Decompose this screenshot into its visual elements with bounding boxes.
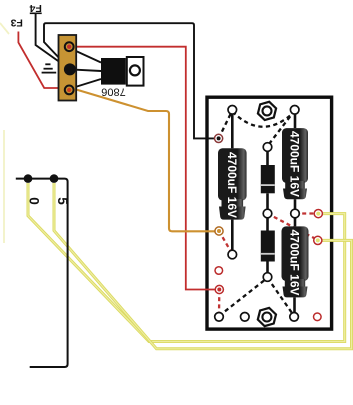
black dashed trace pad17-pad15 (268, 278, 295, 316)
terminal middle (64, 63, 76, 75)
black dashed trace pad13-pad17 (219, 278, 268, 316)
F4 label underline (30, 12, 42, 14)
terminal strip (59, 35, 77, 101)
svg-text:F3: F3 (11, 17, 23, 29)
red dashed trace pad7 to pad10 (under bottom cap) (268, 214, 318, 241)
terminal top (65, 42, 74, 51)
terminal bottom (65, 86, 74, 95)
capacitor C1 4700uF 16V (left) (218, 148, 247, 219)
pad 15 (290, 313, 299, 322)
pad 7 (263, 209, 272, 218)
diode D1 (261, 165, 275, 193)
wire black F4 to middle terminal (36, 13, 70, 69)
PCB board (207, 97, 332, 329)
svg-text:4700uF 16V: 4700uF 16V (287, 229, 301, 295)
lead top-right cap bottom (294, 199, 297, 213)
capacitor C2 4700uF 16V (top right) (282, 128, 308, 199)
pad 2 (290, 106, 299, 115)
wire black middle terminal to board pad 4 (44, 23, 219, 138)
pad 3 (263, 143, 272, 152)
pad 12 (red in) (215, 285, 223, 293)
mid column leads (266, 147, 269, 165)
pad 8 (291, 209, 300, 218)
red dashed trace pad12-pad13 (218, 290, 221, 316)
red dashed trace pad8-pad9 (295, 212, 318, 214)
lead left cap bottom (231, 220, 234, 255)
pad 16 (red ring) (314, 313, 322, 321)
pad 11 (red ring) (215, 267, 223, 275)
wires terminal strip to 7806 pins (71, 49, 102, 63)
red dashed trace pad5-pad6 (219, 231, 232, 254)
wire yellow 5 (transformer 5 to board pad) (54, 183, 352, 349)
svg-text:0: 0 (27, 197, 42, 205)
pad 4 (input from 7806) (215, 134, 223, 142)
ground symbol (42, 64, 57, 72)
regulator U1 7806 body (101, 58, 126, 85)
pad 10 (yellow out) (314, 236, 322, 244)
pad 1 (228, 106, 237, 115)
transformer terminal 5 (50, 174, 59, 183)
svg-text:4700uF 16V: 4700uF 16V (288, 131, 302, 197)
pad 17 (263, 273, 272, 282)
regulator hole (130, 65, 140, 75)
lead top-right cap top (294, 110, 297, 128)
lead bottom-right cap top (294, 214, 297, 227)
lead bottom-right cap bottom (293, 297, 296, 316)
svg-text:5: 5 (55, 197, 70, 205)
pad 5 (orange) (215, 227, 223, 235)
faint artifact line left edge (3, 130, 5, 243)
svg-text:7806: 7806 (101, 85, 125, 97)
wire orange terminal strip bottom to board pad 5 (70, 88, 220, 232)
hex nut top (257, 100, 277, 122)
diode D2 (261, 231, 275, 262)
faint artifact corner top-left (0, 23, 9, 34)
hex nut bottom (257, 306, 277, 328)
transformer terminal 0 (24, 174, 33, 183)
black dashed trace pad4-pad1 (219, 111, 233, 139)
pad 13 (215, 313, 224, 322)
pad 9 (yellow out) (314, 210, 322, 218)
lead left cap top (231, 110, 234, 149)
svg-text:F4: F4 (29, 2, 41, 14)
wire red F3 to terminal strip bottom (18, 32, 69, 90)
svg-text:4700uF 16V: 4700uF 16V (225, 152, 239, 218)
black dashed trace pad1-pad2 curve (232, 112, 294, 127)
transformer outline (16, 179, 68, 367)
wire red terminal strip top to board pad 12 (69, 47, 219, 290)
wire yellow 0 (transformer 0 to board pad) (28, 183, 345, 342)
capacitor C3 4700uF 16V (bottom right) (282, 226, 309, 297)
regulator tab (127, 57, 144, 86)
pad 14 (241, 313, 250, 322)
black dashed trace pad2-pad3 (268, 111, 295, 147)
pad 6 (228, 250, 237, 259)
